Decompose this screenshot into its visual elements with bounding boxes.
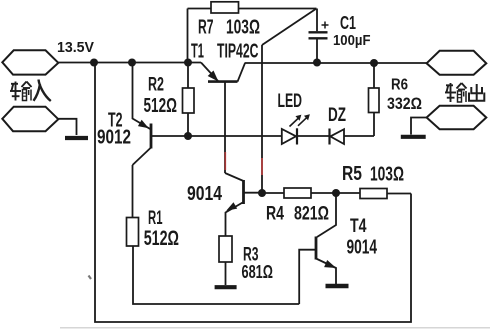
node dot C1 output <box>313 59 321 67</box>
LED D1 <box>282 115 310 145</box>
resistor R1 <box>127 165 139 246</box>
node dot R2/T2 base/LED <box>184 132 192 140</box>
wire hexagon4 to ground <box>411 118 427 135</box>
svg-text:512Ω: 512Ω <box>144 95 178 117</box>
svg-text:332Ω: 332Ω <box>387 94 422 113</box>
wire diagonal from top-right corner to T1 collector column <box>262 9 317 46</box>
svg-text:R1: R1 <box>148 208 163 229</box>
svg-text:821Ω: 821Ω <box>294 204 329 225</box>
resistor R3 <box>219 236 232 285</box>
svg-text:13.5V: 13.5V <box>57 39 94 56</box>
scan artifact blotch <box>89 276 92 280</box>
transistor Q T1 TIP42C <box>201 63 245 82</box>
svg-text:681Ω: 681Ω <box>242 262 274 282</box>
svg-text:R4: R4 <box>266 203 284 225</box>
svg-text:9014: 9014 <box>347 237 378 259</box>
ground output <box>401 135 426 139</box>
wire top rail R7 row <box>188 8 317 10</box>
scan artifact red mark <box>224 152 226 170</box>
wire outer feedback loop right-bottom-left <box>95 63 411 323</box>
node dot R6 tap <box>370 59 378 67</box>
wire inner bottom loop to R1 <box>133 246 299 304</box>
wire T1 base vertical down to T3 collector <box>224 82 226 174</box>
label input 入 character <box>34 80 51 102</box>
svg-text:LED: LED <box>278 90 303 112</box>
resistor R7 <box>211 2 239 13</box>
capacitor C1 <box>309 9 329 63</box>
svg-text:DZ: DZ <box>328 104 346 126</box>
transistor Q2 T3 9014 <box>225 173 244 236</box>
node dot T2 emitter <box>128 59 136 67</box>
wire left drop from R7 row to input rail <box>187 9 189 63</box>
svg-text:103Ω: 103Ω <box>370 163 404 186</box>
input port hexagon 1 <box>2 50 58 74</box>
output port hexagon 3 <box>427 51 487 75</box>
transistor Q4 T2 9012 <box>133 63 152 166</box>
svg-text:R2: R2 <box>148 74 164 95</box>
resistor R5 <box>360 189 387 199</box>
svg-text:103Ω: 103Ω <box>226 16 260 38</box>
zener diode DZ <box>330 129 345 145</box>
resistor R4 <box>284 188 311 198</box>
svg-text:512Ω: 512Ω <box>144 227 179 250</box>
scan artifact red mark 2 <box>261 158 263 175</box>
resistor R6 <box>369 63 380 136</box>
svg-text:100µF: 100µF <box>333 32 371 49</box>
scan artifact faint line <box>60 327 490 329</box>
transistor Q3 T4 9014 <box>316 193 336 284</box>
node dot T3 base <box>258 189 266 197</box>
wire input rail 13.5V <box>58 62 201 64</box>
svg-text:C1: C1 <box>340 13 356 33</box>
wire T2 base <box>151 135 188 137</box>
label output 出 character <box>469 84 484 101</box>
label input 输 character <box>10 82 32 101</box>
wire vertical net x=262 (R7/C1 to T3 base node) <box>261 45 263 193</box>
wire R4 row <box>262 192 411 195</box>
output ground hexagon 4 <box>427 106 487 129</box>
svg-text:R7: R7 <box>198 16 214 38</box>
svg-text:T1: T1 <box>191 41 204 63</box>
svg-text:9012: 9012 <box>97 127 131 149</box>
wire T3 base to node <box>244 192 263 194</box>
node dot T4 collector <box>332 189 340 197</box>
resistor R2 <box>183 63 195 137</box>
ground input <box>65 136 88 140</box>
input ground hexagon 2 <box>2 107 58 132</box>
ground below T4 <box>326 284 349 289</box>
wire T4 base <box>299 250 316 304</box>
ground below R3 <box>215 285 237 289</box>
node dot T1 base/R2 <box>184 59 192 67</box>
svg-text:R5: R5 <box>342 163 362 185</box>
svg-text:T4: T4 <box>350 216 367 237</box>
wire output rail <box>245 62 428 64</box>
wire LED DZ row <box>188 135 374 137</box>
svg-text:9014: 9014 <box>187 183 223 205</box>
node dot input A <box>90 59 98 67</box>
svg-text:R6: R6 <box>391 77 408 94</box>
label output 输 character <box>445 83 467 102</box>
svg-text:TIP42C: TIP42C <box>217 41 259 63</box>
wire hexagon2 to ground <box>58 119 76 135</box>
